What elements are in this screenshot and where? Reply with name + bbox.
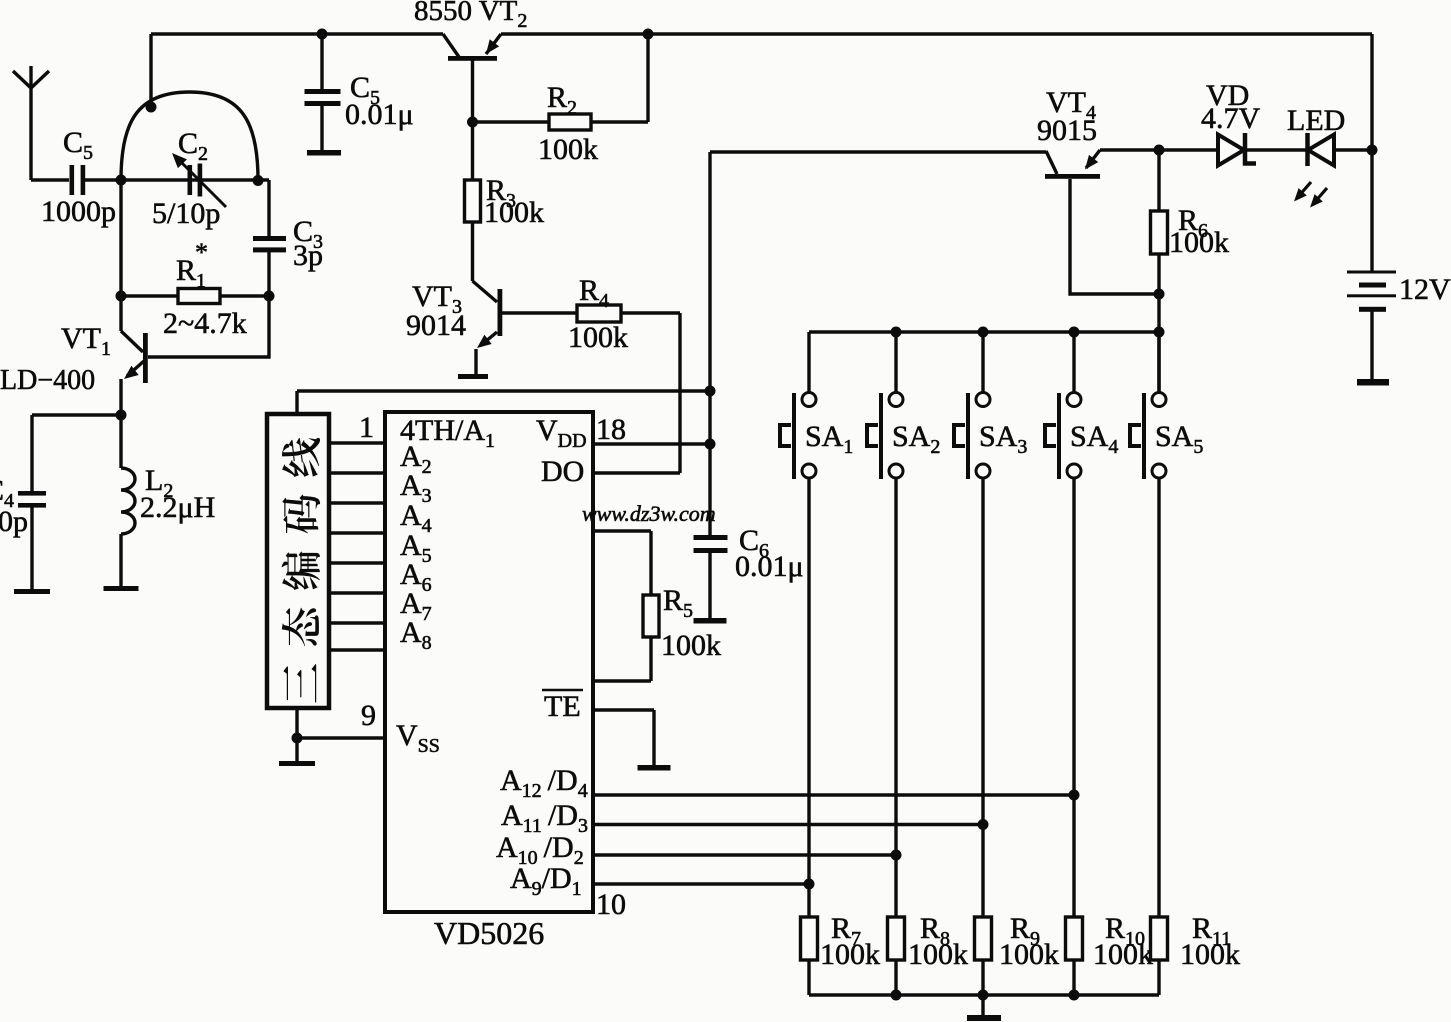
node SA3 bus (978, 327, 989, 338)
svg-text:0.01μ: 0.01μ (735, 550, 804, 583)
wire tank right corner (258, 180, 269, 239)
svg-text:A12 /D4: A12 /D4 (500, 764, 588, 802)
coupling loop arc L1 (121, 92, 258, 180)
wire A12/D4 to SA4 (593, 793, 1074, 796)
svg-text:12V: 12V (1399, 273, 1451, 306)
svg-text:LD−400: LD−400 (0, 365, 95, 396)
watermark (582, 501, 716, 526)
wire bottom bus (809, 993, 1159, 996)
ground battery (1357, 379, 1389, 386)
resistor R6 100k (1151, 150, 1230, 392)
node D2/SA2 (891, 850, 902, 861)
svg-text:VD5026: VD5026 (434, 915, 544, 951)
encoder box san-tai-bian-ma-xian (267, 414, 329, 708)
svg-text:100k: 100k (908, 938, 968, 971)
wire SA5 column (1157, 478, 1160, 917)
node bottom bus (1069, 990, 1080, 1001)
node D3/SA3 (978, 819, 989, 830)
switch SA4 (1045, 332, 1118, 479)
node VT4 base / R6 (1154, 289, 1165, 300)
wire R4 to DO (678, 313, 681, 473)
svg-text:www.dz3w.com: www.dz3w.com (582, 501, 716, 526)
wire Vdd riser to VT4 (708, 152, 711, 535)
svg-text:3p: 3p (293, 239, 323, 272)
node D1/SA1 (804, 879, 815, 890)
wire switch bus (809, 330, 1159, 333)
node R6 top (1154, 145, 1165, 156)
capacitor C5 0.01u top (305, 29, 414, 151)
transistor VT1 LD-400 (0, 296, 269, 415)
ground C4 (14, 589, 50, 594)
svg-text:100k: 100k (1169, 226, 1229, 259)
node arc tap (146, 102, 157, 113)
switch SA1 (780, 332, 853, 479)
resistor R9 100k (975, 912, 1060, 995)
svg-text:100k: 100k (1093, 938, 1153, 971)
node encoder common tap (705, 386, 716, 397)
wire Vdd pin (593, 442, 710, 445)
svg-text:4.7V: 4.7V (1201, 102, 1261, 135)
ground VT3 emitter (458, 374, 488, 379)
wire to VT4 collector (710, 150, 1046, 153)
wire SA1 column (807, 478, 810, 917)
svg-text:1000p: 1000p (41, 195, 116, 228)
wire top rail right (501, 32, 1372, 35)
node R1 right (264, 291, 275, 302)
svg-text:100k: 100k (538, 133, 598, 166)
transistor VT3 9014 (406, 280, 577, 374)
capacitor C3 3p (253, 215, 323, 272)
wire SA4 column (1072, 478, 1075, 917)
ground L2 (104, 586, 139, 591)
node Vdd (705, 439, 716, 450)
resistor R4 100k (568, 274, 680, 354)
wire encoder common (297, 391, 710, 414)
wire A9/D1 to SA1 (593, 882, 809, 885)
resistor R1 2~4.7k (121, 238, 269, 340)
wire tank horizontal (121, 178, 258, 181)
svg-text:100k: 100k (661, 629, 721, 662)
wire VT4 emitter to VD (1100, 148, 1217, 151)
resistor R3 100k (465, 122, 545, 281)
wire top rail left (151, 32, 443, 35)
wire DO pin (593, 471, 680, 474)
ground encoder (279, 761, 315, 766)
svg-text:100k: 100k (484, 196, 544, 229)
transistor VT2 8550 (414, 0, 527, 122)
wire R2 right riser (646, 34, 649, 122)
capacitor C6 0.01u (694, 524, 804, 618)
ground bottom (967, 1015, 1001, 1021)
resistor R2 100k (473, 81, 649, 166)
node Vss junction (292, 733, 303, 744)
svg-text:100k: 100k (999, 938, 1059, 971)
node R2 top tap (643, 29, 654, 40)
ground C5 top (307, 150, 341, 156)
svg-text:A9/D1: A9/D1 (510, 862, 582, 900)
resistor R11 100k (1151, 912, 1241, 995)
wire A10/D2 to SA2 (593, 853, 896, 856)
pin 1 label (359, 411, 374, 444)
capacitor C4 (0, 474, 46, 538)
wire to C4 (32, 415, 121, 491)
resistor R5 100k (593, 531, 721, 681)
svg-text:100k: 100k (820, 938, 880, 971)
wire SA3 column (981, 478, 984, 917)
svg-text:2.2μH: 2.2μH (140, 491, 215, 524)
wire top rail to arc tap (149, 34, 152, 107)
resistor R7 100k (801, 912, 881, 995)
svg-text:0p: 0p (0, 505, 28, 538)
switch SA5 (1130, 332, 1203, 479)
svg-text:5/10p: 5/10p (152, 197, 220, 230)
resistor R8 100k (888, 912, 969, 995)
node VT2 collector / R2 (467, 117, 478, 128)
resistor R10 100k (1066, 912, 1154, 995)
wire C4 to ground (30, 507, 33, 589)
zener diode VD 4.7V (1201, 79, 1261, 166)
node SA5 bus (1154, 327, 1165, 338)
node bottom bus (891, 990, 902, 1001)
wire right rail down (1370, 34, 1373, 271)
IC U1 VD5026 (385, 412, 626, 951)
node battery top (1367, 145, 1378, 156)
wire bottom ground stem (981, 995, 984, 1015)
ground TE (638, 765, 671, 771)
svg-text:9015: 9015 (1037, 114, 1097, 147)
svg-text:9: 9 (361, 699, 376, 732)
svg-text:2~4.7k: 2~4.7k (163, 307, 247, 340)
capacitor C5 1000p (41, 126, 116, 228)
node SA4 bus (1069, 327, 1080, 338)
svg-text:DO: DO (541, 455, 584, 488)
node junction C5/tank (116, 175, 127, 186)
svg-text:TE: TE (544, 690, 581, 723)
svg-text:1: 1 (359, 411, 374, 444)
transistor VT4 9015 (1037, 86, 1159, 294)
inductor L2 2.2uH (121, 415, 215, 586)
LED emission arrows (1290, 182, 1327, 211)
switch SA2 (867, 332, 940, 479)
capacitor C2 5/10p variable (152, 127, 226, 230)
svg-text:9014: 9014 (406, 309, 466, 342)
node tank right (253, 175, 264, 186)
node R1 left (116, 291, 127, 302)
svg-text:100k: 100k (568, 321, 628, 354)
svg-text:0.01μ: 0.01μ (345, 98, 414, 131)
svg-text:10: 10 (596, 888, 626, 921)
wire C5 to node (85, 178, 121, 181)
node bottom bus (978, 990, 989, 1001)
wire SA2 column (894, 478, 897, 917)
node D4/SA4 (1069, 790, 1080, 801)
wire C3 to R1 right node (267, 252, 270, 296)
wire A11/D3 to SA3 (593, 823, 983, 826)
pin 9 label (361, 699, 376, 732)
LED (1287, 104, 1345, 166)
svg-text:LED: LED (1287, 104, 1345, 137)
battery 12V (1347, 271, 1451, 380)
node emitter junction (116, 410, 127, 421)
encoder pin stub wires (331, 443, 385, 650)
node SA2 bus (891, 327, 902, 338)
switch SA3 (954, 332, 1027, 479)
wire tank left vertical (119, 180, 122, 296)
svg-text:18: 18 (596, 413, 626, 446)
wire encoder bottom to Vss (297, 708, 385, 761)
antenna (13, 66, 49, 180)
svg-text:100k: 100k (1180, 938, 1240, 971)
wire VD to LED (1245, 148, 1308, 151)
wire TE pin to ground (593, 710, 654, 765)
wire antenna to C5 (31, 178, 69, 181)
wire LED to battery rail (1334, 148, 1372, 151)
ground C6 (694, 618, 727, 624)
